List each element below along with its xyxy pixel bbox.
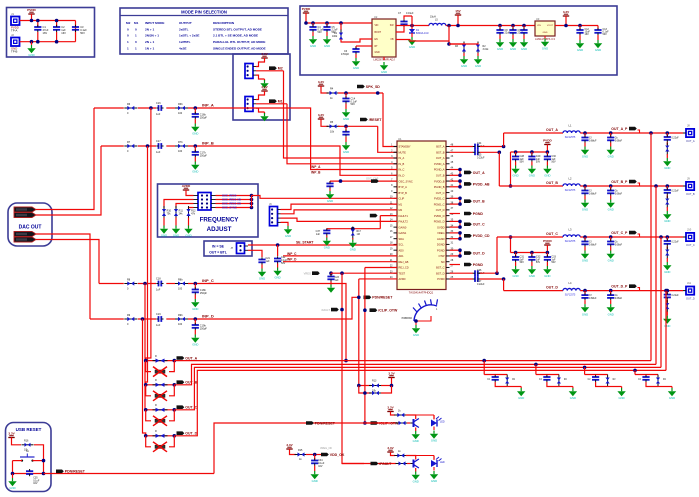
svg-text:BYP_B: BYP_B bbox=[399, 191, 408, 195]
pin 19 left stub bbox=[394, 249, 398, 251]
port OUT_A bbox=[14, 207, 36, 212]
resistor Rsn bbox=[665, 196, 669, 208]
svg-text:R6b: R6b bbox=[178, 103, 183, 106]
wire bbox=[326, 229, 328, 230]
resistor R4 bbox=[327, 91, 340, 95]
svg-text:0.68uF: 0.68uF bbox=[615, 243, 623, 246]
svg-text:OSC_SYNC: OSC_SYNC bbox=[399, 179, 413, 183]
wire RESET bbox=[338, 125, 378, 127]
wire stub bbox=[450, 213, 461, 215]
wire bbox=[33, 460, 44, 462]
svg-text:OUT_C: OUT_C bbox=[473, 223, 485, 227]
svg-text:0.22uF: 0.22uF bbox=[672, 138, 680, 140]
switch SW1 bbox=[20, 454, 35, 462]
wire bbox=[547, 382, 559, 387]
junction bbox=[149, 106, 153, 110]
wire bbox=[345, 137, 347, 142]
junction bbox=[144, 408, 148, 412]
svg-text:PARALLEL BTL OUTPUT, AD MODE: PARALLEL BTL OUTPUT, AD MODE bbox=[213, 40, 265, 44]
svg-text:1: 1 bbox=[135, 34, 137, 38]
wire bbox=[579, 26, 581, 31]
capacitor C18 bbox=[156, 281, 163, 287]
capacitor Cs bbox=[607, 188, 614, 195]
wire bbox=[99, 283, 124, 285]
svg-text:DESCRIPTION: DESCRIPTION bbox=[213, 21, 235, 25]
svg-text:/RESET: /RESET bbox=[369, 118, 383, 122]
junction bbox=[502, 277, 506, 281]
junction bbox=[511, 24, 515, 28]
svg-text:0.68uF: 0.68uF bbox=[589, 243, 597, 246]
wire led top bbox=[416, 455, 434, 457]
svg-text:OUT_A: OUT_A bbox=[473, 171, 485, 175]
junction bbox=[351, 227, 355, 231]
junction bbox=[55, 19, 59, 23]
resistor Rsn bbox=[665, 300, 669, 312]
power flag PVDD PVDD bbox=[27, 8, 36, 14]
junction bbox=[55, 40, 59, 44]
svg-text:PGND_B: PGND_B bbox=[434, 185, 445, 189]
junction bbox=[30, 19, 34, 23]
node OUT_C bbox=[177, 405, 198, 409]
svg-text:OTW: OTW bbox=[438, 254, 445, 258]
inductor L1 bbox=[563, 131, 580, 133]
pin 48 right stub bbox=[446, 146, 450, 148]
wire xmodule bottom bbox=[146, 410, 151, 421]
svg-text:AD0: AD0 bbox=[399, 248, 405, 252]
node PGND bbox=[464, 212, 483, 216]
svg-text:1uF: 1uF bbox=[156, 151, 161, 154]
junction bbox=[340, 308, 344, 312]
wire bbox=[523, 35, 525, 39]
svg-text:FAULT1: FAULT1 bbox=[399, 214, 409, 218]
junction bbox=[530, 251, 534, 255]
ground bbox=[430, 431, 438, 443]
power flag 3.3V 3.3V bbox=[388, 372, 395, 378]
regulator U2 bbox=[372, 19, 396, 57]
svg-text:GND: GND bbox=[185, 234, 191, 238]
wire bbox=[559, 386, 573, 388]
wire BST_C bbox=[450, 272, 474, 274]
svg-text:1uF: 1uF bbox=[316, 233, 321, 236]
resistor Rz bbox=[557, 375, 561, 387]
wire bbox=[596, 382, 608, 387]
pin 31 right stub bbox=[446, 243, 450, 245]
junction bbox=[173, 383, 177, 387]
wire stub bbox=[450, 186, 461, 188]
pin 29 right stub bbox=[446, 255, 450, 257]
wire bbox=[12, 461, 14, 474]
junction bbox=[36, 19, 40, 23]
svg-text:FREQUENCY: FREQUENCY bbox=[200, 217, 240, 224]
capacitor C5 bbox=[323, 25, 330, 32]
power flag 3.3V 3.3V bbox=[261, 52, 268, 58]
svg-text:VOUT: VOUT bbox=[547, 25, 554, 27]
wire bbox=[188, 318, 210, 320]
wire bbox=[507, 386, 521, 388]
pin 3 left stub bbox=[394, 157, 398, 159]
svg-text:PVDD: PVDD bbox=[302, 7, 311, 11]
junction bbox=[344, 91, 348, 95]
wire AVDD to header bbox=[186, 190, 194, 196]
wire bbox=[329, 189, 331, 192]
wire bbox=[188, 283, 210, 285]
svg-text:GND: GND bbox=[521, 47, 527, 51]
svg-text:50V: 50V bbox=[520, 261, 525, 264]
wire bbox=[330, 273, 332, 276]
wire bbox=[531, 162, 533, 166]
pin 33 right stub bbox=[446, 232, 450, 234]
capacitor C33 bbox=[544, 255, 551, 262]
wire bbox=[169, 385, 174, 396]
svg-text:M2: M2 bbox=[126, 21, 131, 25]
svg-text:BOOT: BOOT bbox=[375, 32, 382, 34]
wire bbox=[340, 39, 342, 42]
svg-text:1uF: 1uF bbox=[156, 324, 161, 327]
ground bbox=[273, 268, 281, 280]
capacitor Cz bbox=[543, 375, 550, 382]
wire bbox=[175, 218, 177, 226]
inductor L3 bbox=[563, 235, 580, 237]
svg-text:50V: 50V bbox=[536, 161, 541, 164]
pin 39 right stub bbox=[446, 197, 450, 199]
node RESET bbox=[360, 118, 382, 122]
wire bbox=[584, 247, 586, 251]
ground bbox=[408, 37, 416, 49]
svg-text:VIN: VIN bbox=[537, 25, 541, 27]
resistor Rz bbox=[505, 375, 509, 387]
wire bbox=[326, 32, 328, 36]
wire bbox=[188, 218, 190, 226]
ground bbox=[191, 299, 199, 311]
svg-text:GND: GND bbox=[543, 32, 548, 34]
svg-text:OUT_D_P: OUT_D_P bbox=[611, 285, 628, 289]
wire stub bbox=[450, 203, 461, 205]
wire bbox=[391, 378, 393, 386]
svg-text:BST_A: BST_A bbox=[436, 145, 444, 149]
ground bbox=[474, 56, 482, 68]
pin 15 left stub bbox=[394, 226, 398, 228]
junction bbox=[530, 150, 534, 154]
wire bank1 drop bbox=[510, 152, 512, 186]
svg-text:100: 100 bbox=[178, 323, 183, 326]
pin 43 right stub bbox=[446, 174, 450, 176]
node OUT_C bbox=[464, 222, 485, 226]
wire bbox=[256, 58, 265, 67]
wire to IC RESET bbox=[378, 126, 397, 152]
power flag 3.3V 3.3V bbox=[387, 406, 394, 412]
wire /CLIP_OTW bbox=[365, 422, 396, 424]
node SPK_SD bbox=[357, 85, 380, 89]
wire bbox=[345, 126, 347, 132]
junction bbox=[546, 251, 550, 255]
capacitor C16b bbox=[192, 112, 199, 119]
svg-text:100: 100 bbox=[178, 287, 183, 290]
wire stub join bbox=[459, 170, 461, 176]
svg-text:OUT_D: OUT_D bbox=[473, 251, 485, 255]
wire OUT_D vertical bbox=[665, 291, 667, 371]
capacitor C28 bbox=[512, 154, 519, 161]
wire bbox=[546, 152, 548, 156]
ground bbox=[172, 226, 180, 238]
svg-text:GND: GND bbox=[28, 53, 34, 57]
capacitor Csn bbox=[664, 135, 671, 142]
svg-text:50V: 50V bbox=[281, 262, 286, 265]
junction bbox=[609, 235, 613, 239]
node OUT_A_P bbox=[611, 127, 637, 131]
wire bbox=[512, 26, 514, 31]
ground bbox=[412, 472, 420, 484]
svg-text:AGND: AGND bbox=[437, 237, 445, 241]
svg-text:OUT_C: OUT_C bbox=[436, 191, 445, 195]
wire bbox=[12, 474, 14, 479]
pin 41 right stub bbox=[446, 186, 450, 188]
wire EN bbox=[341, 39, 372, 42]
svg-text:3.3V: 3.3V bbox=[563, 10, 570, 14]
connector J1 bbox=[11, 17, 20, 26]
junction bbox=[325, 21, 329, 25]
svg-text:OUT_B: OUT_B bbox=[473, 200, 485, 204]
wire bbox=[13, 460, 23, 462]
junction bbox=[357, 296, 361, 300]
junction bbox=[458, 174, 462, 178]
wire bbox=[216, 195, 252, 197]
resistor R6b bbox=[175, 106, 188, 110]
wire bbox=[407, 463, 410, 465]
junction bbox=[509, 184, 513, 188]
wire bbox=[163, 218, 165, 226]
wire stub bbox=[450, 174, 461, 176]
wire OUT_A vertical bbox=[650, 133, 652, 361]
capacitor C22 bbox=[274, 256, 281, 263]
junction bbox=[344, 359, 348, 363]
resistor DNP bbox=[153, 359, 168, 363]
wire bbox=[256, 91, 265, 100]
wire bbox=[391, 412, 396, 416]
node PDN_RESET bbox=[56, 470, 86, 474]
port OUT_C bbox=[14, 231, 36, 236]
junction bbox=[458, 179, 462, 183]
DAC OUT box bbox=[8, 203, 52, 246]
wire FAULT vertical bbox=[342, 273, 364, 463]
svg-text:GND: GND bbox=[381, 70, 387, 74]
wire bank rail bbox=[511, 151, 548, 153]
wire bbox=[495, 382, 507, 387]
svg-text:OUT_A: OUT_A bbox=[436, 156, 445, 160]
junction bbox=[458, 220, 462, 224]
capacitor C36 bbox=[326, 181, 333, 188]
node OTW tag bbox=[371, 179, 379, 183]
wire bbox=[359, 385, 371, 387]
wire bbox=[138, 318, 156, 320]
svg-text:SPK_SD: SPK_SD bbox=[366, 85, 380, 89]
wire tag hook bbox=[638, 183, 640, 186]
pin 26 right stub bbox=[446, 272, 450, 274]
DNP capacitor bbox=[153, 391, 167, 401]
pin 30 right stub bbox=[446, 249, 450, 251]
junction bbox=[390, 384, 394, 388]
node PDN_RESET pin bbox=[364, 296, 394, 300]
junction bbox=[534, 363, 538, 367]
junction bbox=[458, 231, 462, 235]
wire stub bbox=[450, 226, 461, 228]
node OUT_D bbox=[177, 431, 198, 435]
ground bbox=[594, 40, 602, 52]
wire stub bbox=[450, 238, 461, 240]
capacitor C1 bbox=[34, 25, 41, 32]
svg-text:50V: 50V bbox=[536, 261, 541, 264]
wire J6-3 to IC bbox=[281, 218, 398, 221]
junction bbox=[609, 131, 613, 135]
svg-text:1xBTL + 2xSE: 1xBTL + 2xSE bbox=[179, 34, 200, 38]
svg-text:OUT_C_P: OUT_C_P bbox=[611, 231, 628, 235]
svg-text:OUT_C: OUT_C bbox=[546, 232, 558, 236]
wire M2 bbox=[256, 70, 284, 72]
wire xmodule top bbox=[146, 384, 175, 386]
svg-text:M1: M1 bbox=[399, 202, 403, 206]
junction bbox=[458, 202, 462, 206]
wire J6-2 to IC bbox=[281, 210, 398, 214]
wire bbox=[381, 385, 392, 387]
wire bbox=[433, 456, 435, 460]
svg-text:0.68uF: 0.68uF bbox=[615, 139, 623, 142]
svg-text:GND: GND bbox=[664, 324, 670, 328]
thermal pad symbol bbox=[413, 299, 438, 321]
junction bbox=[250, 198, 254, 202]
wire bbox=[314, 455, 316, 460]
junction bbox=[144, 383, 148, 387]
wire bbox=[194, 146, 196, 152]
resistor R7 bbox=[124, 144, 137, 148]
svg-text:3.01k: 3.01k bbox=[483, 48, 490, 51]
pin 8 left stub bbox=[394, 186, 398, 188]
capacitor Cz bbox=[642, 375, 649, 382]
svg-text:0.22uF: 0.22uF bbox=[672, 242, 680, 244]
wire bbox=[256, 108, 265, 112]
power flag PVDD PVDD bbox=[543, 239, 552, 245]
pin 18 left stub bbox=[394, 243, 398, 245]
svg-text:GND: GND bbox=[529, 274, 535, 278]
svg-text:50V: 50V bbox=[520, 161, 525, 164]
wire bbox=[312, 23, 314, 27]
svg-text:PVDD_B: PVDD_B bbox=[434, 179, 445, 183]
ground bbox=[160, 226, 168, 238]
wire bbox=[666, 186, 668, 190]
svg-text:GVDD: GVDD bbox=[437, 225, 445, 229]
wire bbox=[138, 283, 156, 285]
wire bbox=[448, 41, 450, 44]
table MODE PIN SELECTION bbox=[120, 8, 288, 54]
wire bbox=[480, 146, 504, 148]
wire BST_D bbox=[450, 278, 474, 280]
power flag 3.3V 3.3V bbox=[387, 446, 394, 452]
junction bbox=[502, 145, 506, 149]
wire OUT_C bus bbox=[174, 367, 661, 409]
svg-text:GND: GND bbox=[192, 132, 198, 136]
wire bbox=[138, 107, 156, 109]
svg-text:SLF12575: SLF12575 bbox=[565, 137, 576, 139]
resistor Rz bbox=[606, 375, 610, 387]
wire OUT_B bus bbox=[174, 364, 656, 384]
ground bbox=[663, 316, 671, 328]
SE BTL jumper box bbox=[204, 241, 252, 256]
wire SE path A bbox=[146, 108, 151, 361]
junction bbox=[194, 144, 198, 148]
junction bbox=[564, 24, 568, 28]
svg-text:GND: GND bbox=[312, 479, 318, 483]
svg-text:OSC_RES0: OSC_RES0 bbox=[222, 194, 237, 198]
svg-text:1uF: 1uF bbox=[266, 260, 271, 263]
svg-text:50V: 50V bbox=[318, 31, 323, 34]
svg-text:GND: GND bbox=[570, 396, 576, 400]
node FAULT tag bbox=[331, 308, 339, 312]
ground bbox=[260, 80, 268, 88]
LED D bbox=[431, 457, 442, 467]
capacitor C25 BST bbox=[473, 149, 480, 155]
svg-text:OUT_B_P: OUT_B_P bbox=[611, 180, 628, 184]
transistor Q bbox=[410, 419, 419, 428]
resistor R8 bbox=[124, 281, 137, 285]
capacitor C32 bbox=[528, 255, 535, 262]
wire 3.3V rail bbox=[555, 25, 598, 27]
svg-text:OUT_D: OUT_D bbox=[686, 297, 695, 301]
diode D1 B340A bbox=[409, 29, 415, 33]
svg-text:OUT_B: OUT_B bbox=[686, 192, 695, 196]
wire freq join bbox=[251, 196, 253, 208]
junction bbox=[447, 24, 451, 28]
svg-text:REJ_AB: REJ_AB bbox=[399, 260, 409, 264]
pin 45 right stub bbox=[446, 163, 450, 165]
node OUT_B bbox=[177, 380, 198, 384]
svg-text:R13: R13 bbox=[372, 380, 377, 383]
wire M1 to IC bbox=[287, 104, 397, 164]
svg-text:GND: GND bbox=[618, 396, 624, 400]
junction bbox=[458, 248, 462, 252]
wire bbox=[666, 237, 668, 241]
ground bbox=[663, 158, 671, 170]
resistor Rl bbox=[394, 453, 407, 457]
svg-text:OUT_C: OUT_C bbox=[185, 406, 197, 410]
svg-text:R16: R16 bbox=[24, 439, 29, 442]
wire stub join bbox=[459, 181, 461, 187]
pin 9 left stub bbox=[394, 192, 398, 194]
pin 16 left stub bbox=[394, 232, 398, 234]
wire bbox=[666, 258, 668, 262]
wire OUT_A row bbox=[504, 132, 563, 134]
DNP capacitor bbox=[153, 367, 167, 377]
svg-text:C16: C16 bbox=[156, 102, 161, 105]
wire bbox=[666, 195, 668, 198]
svg-text:GND: GND bbox=[259, 277, 265, 281]
pin 32 right stub bbox=[446, 238, 450, 240]
power flag 3.3V 3.3V bbox=[563, 10, 570, 16]
resistor DNP bbox=[153, 408, 168, 412]
junction bbox=[410, 24, 414, 28]
wire bbox=[546, 262, 548, 266]
wire bbox=[189, 207, 194, 210]
capacitor C23 bbox=[327, 274, 334, 281]
ground bbox=[617, 388, 625, 400]
wire bbox=[34, 445, 44, 461]
wire xmodule bottom bbox=[146, 385, 151, 396]
svg-text:2N/2N + 1: 2N/2N + 1 bbox=[145, 34, 159, 38]
junction bbox=[357, 384, 361, 388]
svg-text:0.68uF: 0.68uF bbox=[615, 297, 623, 300]
svg-text:INP_C: INP_C bbox=[202, 278, 214, 283]
resistor R2 bbox=[476, 42, 480, 55]
ground bbox=[511, 166, 519, 178]
node PVDD_AB bbox=[464, 182, 490, 186]
wire bbox=[584, 300, 586, 304]
